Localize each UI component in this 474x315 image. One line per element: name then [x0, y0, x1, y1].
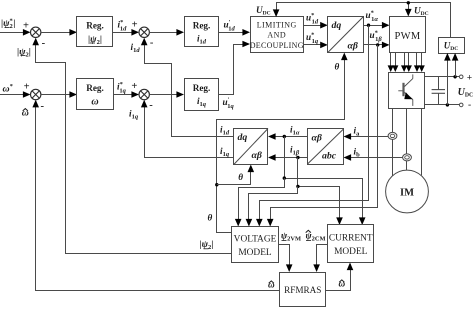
svg-text:LIMITING: LIMITING — [257, 20, 297, 29]
current sensor phase b — [403, 154, 412, 161]
label omega-hat right of RFMRAS — [339, 279, 346, 289]
wire psi2CM-hat current model to RFMRAS — [313, 245, 327, 273]
svg-text:+: + — [24, 82, 30, 93]
svg-text:Reg.: Reg. — [86, 83, 104, 93]
svg-text:-: - — [150, 37, 154, 48]
wire flux feedback |psi2| from voltage model to SJ1 — [32, 38, 231, 254]
label UDC above PWM — [414, 6, 429, 18]
wire DC bus positive rail — [425, 73, 472, 83]
block LIMITING AND DECOUPLING U1 — [250, 17, 304, 53]
wire i1d feedback from dq2 transform to SJ2 — [141, 38, 234, 137]
svg-text:dq: dq — [332, 20, 342, 31]
label psi2VM — [281, 231, 301, 243]
label UDC of DC link — [458, 87, 474, 99]
wire i1q feedback from dq2 transform to SJ4 — [141, 100, 234, 158]
svg-text:θ: θ — [335, 62, 340, 72]
label i1beta — [290, 145, 300, 157]
block alpha-beta to dq current transform U4 — [234, 129, 269, 165]
block CURRENT MODEL — [328, 225, 374, 263]
svg-text:αβ: αβ — [312, 133, 322, 144]
block dq to alpha-beta voltage transform U2 — [328, 17, 364, 53]
label u1alpha* — [366, 10, 379, 24]
svg-text:-: - — [468, 101, 471, 111]
wire SJ4 to q-current regulator — [149, 91, 184, 98]
svg-text:αβ: αβ — [252, 150, 262, 161]
label theta near voltage model — [208, 213, 213, 223]
label omega-hat left of RFMRAS — [268, 280, 275, 290]
label i1d* — [118, 19, 138, 33]
svg-text:θ: θ — [208, 213, 213, 223]
svg-text:IM: IM — [400, 188, 414, 199]
svg-text:MODEL: MODEL — [238, 248, 272, 258]
wire SJ3 to speed regulator — [41, 91, 77, 98]
block RFMRAS speed estimator — [280, 273, 326, 307]
svg-text:RFMRAS: RFMRAS — [284, 285, 321, 295]
svg-text:+: + — [131, 81, 137, 92]
svg-text:CURRENT: CURRENT — [329, 234, 373, 244]
label u1d-prime — [224, 19, 236, 33]
wire phase c from inverter to motor — [421, 109, 423, 175]
label u1d* — [306, 12, 319, 26]
svg-text:αβ: αβ — [348, 41, 358, 52]
svg-text:+: + — [23, 20, 29, 31]
svg-text:θ: θ — [238, 172, 243, 182]
svg-text:|ψ2*|: |ψ2*| — [1, 17, 15, 30]
label u1q* — [306, 32, 319, 46]
label ia — [354, 126, 361, 138]
block speed regulator Reg.omega — [77, 79, 114, 110]
capacitor C DC-link — [432, 77, 445, 105]
wire i1q* reference: speed regulator to SJ4 — [114, 91, 140, 98]
wire u1d-prime: Reg.i1d to limiting block — [219, 29, 250, 36]
wire omega-hat RFMRAS to current model — [326, 263, 353, 291]
block alpha-beta to abc current transform U3 — [308, 129, 344, 165]
label i1d feedback near SJ2 — [131, 37, 154, 54]
label |psi2| flux feedback near SJ1 — [17, 38, 46, 58]
label omega-hat feedback near SJ3 — [22, 101, 45, 119]
summing junction SJ3 (speed error) — [31, 89, 41, 99]
svg-text:-: - — [149, 100, 153, 111]
wire psi2* reference into summing junction SJ1 — [0, 20, 31, 35]
label theta near dq2 — [238, 172, 243, 182]
wire theta from voltage model to dq1 and dq2 — [215, 53, 348, 233]
label i1d output of dq2 — [220, 125, 230, 137]
wires DC bus sensing into UDC block — [444, 53, 458, 105]
label i1q* — [117, 81, 137, 95]
wires PWM gate signals to inverter (6 arrows) — [388, 53, 425, 73]
wire i1beta abc-transform to dq2 with branches — [246, 154, 343, 226]
svg-text:VOLTAGE: VOLTAGE — [234, 235, 277, 245]
label u1q-prime — [223, 97, 235, 111]
wire u1q-prime: Reg.i1q up to limiting block second input — [219, 41, 250, 95]
svg-text:-: - — [40, 101, 44, 112]
svg-text:DECOUPLING: DECOUPLING — [250, 41, 304, 50]
label i1q output of dq2 — [220, 146, 230, 158]
svg-text:|ψ2|: |ψ2| — [17, 46, 31, 58]
svg-text:Reg.: Reg. — [193, 83, 211, 93]
block flux regulator Reg.|psi2| — [77, 17, 113, 47]
svg-text:-: - — [42, 38, 46, 49]
wire u1q* limiting to dq1 transform — [304, 42, 328, 49]
wire phase b from inverter to motor — [406, 109, 408, 170]
node psi2-ref input label |psi2*| — [1, 17, 15, 30]
svg-text:AND: AND — [267, 31, 286, 40]
svg-text:abc: abc — [322, 151, 337, 162]
block PWM modulator — [390, 17, 426, 53]
label |psi2| output of voltage model — [200, 239, 214, 251]
wire UDC measurement to limiting block and PWM — [273, 1, 451, 37]
svg-text:Reg.: Reg. — [193, 21, 211, 31]
label i1alpha — [290, 125, 300, 137]
wire i1alpha abc-transform to dq2 with branches — [235, 133, 366, 226]
wire u1beta* dq1 to PWM with branch down to voltage model — [267, 42, 390, 227]
block VOLTAGE MODEL — [232, 227, 279, 263]
label psi2CM-hat — [306, 230, 326, 242]
block q-current regulator Reg.i1q — [185, 79, 219, 111]
current sensor phase a — [388, 132, 397, 139]
label theta into dq1 — [335, 62, 340, 72]
summing junction SJ2 (d-current error) — [139, 27, 149, 37]
svg-text:|ψ2|: |ψ2| — [88, 34, 102, 46]
svg-text:+: + — [132, 20, 138, 31]
summing junction SJ1 (flux error) — [31, 27, 41, 37]
wire u1d* limiting to dq1 transform — [304, 22, 328, 29]
svg-text:dq: dq — [238, 132, 248, 143]
svg-text:MODEL: MODEL — [334, 247, 368, 257]
wire psi2VM voltage model to RFMRAS — [279, 245, 293, 273]
wire omega* into summing junction SJ3 — [0, 82, 31, 98]
wire u1alpha* dq1 to PWM with branch down to voltage model — [256, 22, 390, 227]
wire SJ2 to d-current regulator — [149, 29, 184, 36]
block d-current regulator Reg.i1d — [185, 17, 219, 47]
wire ia measurement to abc transform — [344, 133, 389, 140]
wire SJ1 to flux regulator — [41, 29, 77, 36]
svg-text:PWM: PWM — [395, 31, 421, 42]
label i1q feedback near SJ4 — [129, 100, 153, 121]
label u1beta* — [370, 30, 383, 44]
wire phase a from inverter to motor — [392, 109, 394, 176]
summing junction SJ4 (q-current error) — [139, 89, 149, 99]
induction motor IM — [386, 170, 429, 213]
svg-text:+: + — [467, 73, 472, 83]
wire i1d* reference: flux regulator to SJ2 — [113, 29, 139, 36]
block UDC measurement — [439, 38, 465, 54]
node speed reference label omega* — [3, 83, 13, 95]
svg-text:Reg.: Reg. — [86, 21, 104, 31]
label UDC above limiting block — [256, 5, 271, 17]
label ib — [354, 147, 361, 159]
block voltage source inverter with transistor symbol — [389, 73, 425, 109]
wire DC bus negative rail — [425, 101, 471, 111]
wire ib measurement to abc transform — [344, 154, 403, 161]
wire speed estimate omega-hat from RFMRAS to SJ3 — [32, 100, 279, 291]
svg-text:ω: ω — [91, 97, 98, 108]
